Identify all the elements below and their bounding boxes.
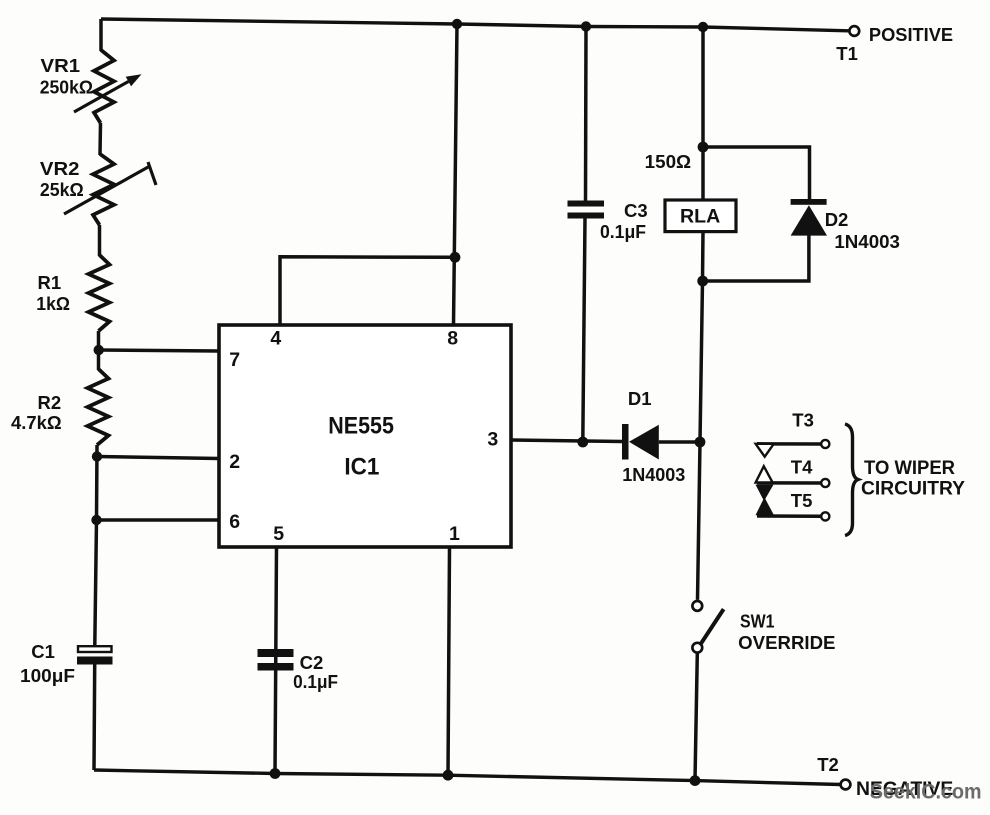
svg-text:C1: C1 (31, 641, 55, 662)
svg-text:1N4003: 1N4003 (622, 464, 685, 485)
switch SW1 bottom contact (692, 643, 702, 653)
node bottom rail C2 (270, 768, 281, 779)
connector open triangle above T4 (756, 466, 773, 482)
svg-text:0.1μF: 0.1μF (600, 221, 646, 242)
wire pin 6 (97, 518, 220, 522)
svg-text:5: 5 (273, 523, 284, 545)
svg-text:VR1: VR1 (41, 55, 81, 76)
svg-text:250kΩ: 250kΩ (40, 77, 93, 98)
wire pin 1 down (448, 547, 450, 775)
node pin3 C3 junction (577, 437, 588, 448)
connector open triangle below T3 (756, 444, 774, 457)
terminal T5 circle (821, 512, 829, 520)
svg-text:D2: D2 (825, 209, 849, 230)
node pin6 tee (91, 515, 101, 525)
diode D2 (791, 199, 827, 236)
svg-text:T1: T1 (836, 43, 858, 64)
node D1 relay junction (695, 437, 706, 448)
node top rail / pin8 riser (452, 19, 462, 29)
terminal T5 wire (757, 514, 821, 518)
wire D2 branch bottom (703, 235, 809, 281)
terminal T4 circle (821, 479, 829, 487)
svg-text:3: 3 (487, 429, 498, 451)
node bottom rail switch (690, 775, 701, 786)
node pin2 tee (92, 451, 102, 461)
wire R2 down to C1 (95, 445, 97, 645)
wire C3 branch lower (583, 218, 585, 442)
svg-text:C2: C2 (300, 652, 324, 673)
switch SW1 lever (699, 609, 724, 646)
wire bottom negative rail (94, 770, 841, 785)
svg-text:100μF: 100μF (20, 665, 75, 686)
wire switch to bottom rail (695, 654, 697, 781)
wire left chain top stub (99, 19, 103, 51)
svg-text:4: 4 (270, 328, 281, 350)
svg-text:TO WIPER: TO WIPER (864, 458, 955, 479)
svg-text:25kΩ: 25kΩ (40, 179, 84, 200)
svg-text:6: 6 (229, 511, 240, 533)
potentiometer VR1 (74, 50, 142, 123)
diode D1 (622, 424, 659, 460)
svg-text:T5: T5 (791, 490, 813, 511)
connector filled triangle above T5 (756, 497, 775, 515)
svg-text:8: 8 (447, 328, 458, 350)
svg-text:R1: R1 (38, 272, 62, 293)
svg-text:0.1μF: 0.1μF (293, 671, 338, 692)
svg-text:2: 2 (229, 451, 240, 473)
svg-text:SW1: SW1 (740, 612, 775, 632)
wire R1 to R2 (97, 331, 101, 370)
trimmer VR2 (64, 154, 156, 225)
svg-text:1N4003: 1N4003 (834, 231, 900, 252)
terminal T2 (841, 780, 851, 790)
node relay D2 return (697, 276, 708, 287)
capacitor C1 electrolytic (77, 646, 113, 664)
connector filled triangle below T4 (756, 485, 774, 501)
terminal T3 circle (821, 440, 829, 448)
node pin4 riser junction (450, 252, 461, 263)
svg-text:SeekIC.com: SeekIC.com (870, 781, 982, 804)
svg-text:CIRCUITRY: CIRCUITRY (861, 479, 965, 500)
node top rail / C3 branch (581, 21, 591, 31)
wire VR2 to R1 (98, 225, 102, 256)
svg-text:R2: R2 (38, 392, 62, 413)
node relay top D2 branch (698, 142, 709, 153)
svg-text:T4: T4 (791, 457, 813, 478)
switch SW1 top contact (692, 601, 702, 611)
wire pin 5 down (275, 547, 277, 774)
svg-text:IC1: IC1 (344, 453, 379, 480)
terminal T4 wire (757, 481, 821, 485)
wire pin 7 (99, 350, 219, 351)
resistor R1 (89, 255, 110, 331)
wire pin 2 (97, 457, 219, 459)
svg-text:T2: T2 (817, 754, 839, 775)
svg-text:1: 1 (449, 523, 460, 545)
svg-text:OVERRIDE: OVERRIDE (738, 633, 835, 653)
capacitor C2 (258, 649, 294, 671)
wire pin 3 output (511, 440, 622, 442)
svg-text:1kΩ: 1kΩ (36, 293, 70, 314)
svg-text:C3: C3 (624, 200, 648, 221)
svg-text:7: 7 (229, 349, 240, 371)
wire relay bottom down to switch (698, 232, 704, 600)
resistor R2 (88, 369, 109, 445)
IC1 NE555 box (219, 325, 511, 547)
wire pin 8 riser (454, 24, 458, 325)
svg-text:4.7kΩ: 4.7kΩ (11, 412, 62, 433)
wire D2 branch top (703, 147, 810, 200)
relay coil RLA box (665, 200, 736, 232)
svg-text:150Ω: 150Ω (645, 151, 692, 172)
node bottom rail pin1 (443, 770, 454, 781)
wire VR1 to VR2 (98, 123, 102, 155)
svg-text:D1: D1 (628, 388, 652, 409)
node top rail / relay branch (698, 22, 708, 32)
wire top positive rail (101, 19, 849, 31)
capacitor C3 (568, 201, 605, 219)
svg-text:VR2: VR2 (40, 158, 80, 179)
node pin7 tee (94, 345, 104, 355)
svg-text:NE555: NE555 (328, 412, 394, 439)
wire C3 branch upper (584, 27, 588, 202)
wire pin 4 up to riser (280, 257, 455, 325)
wire C1 to bottom rail (92, 665, 96, 771)
svg-text:POSITIVE: POSITIVE (869, 24, 953, 45)
terminal T3 wire (757, 442, 821, 446)
wire D1 to relay line (659, 440, 700, 444)
svg-text:T3: T3 (792, 410, 814, 431)
wire relay branch from top rail (701, 27, 705, 200)
svg-text:RLA: RLA (680, 206, 720, 228)
terminal T1 (849, 26, 859, 36)
brace to wiper circuitry (845, 424, 858, 536)
